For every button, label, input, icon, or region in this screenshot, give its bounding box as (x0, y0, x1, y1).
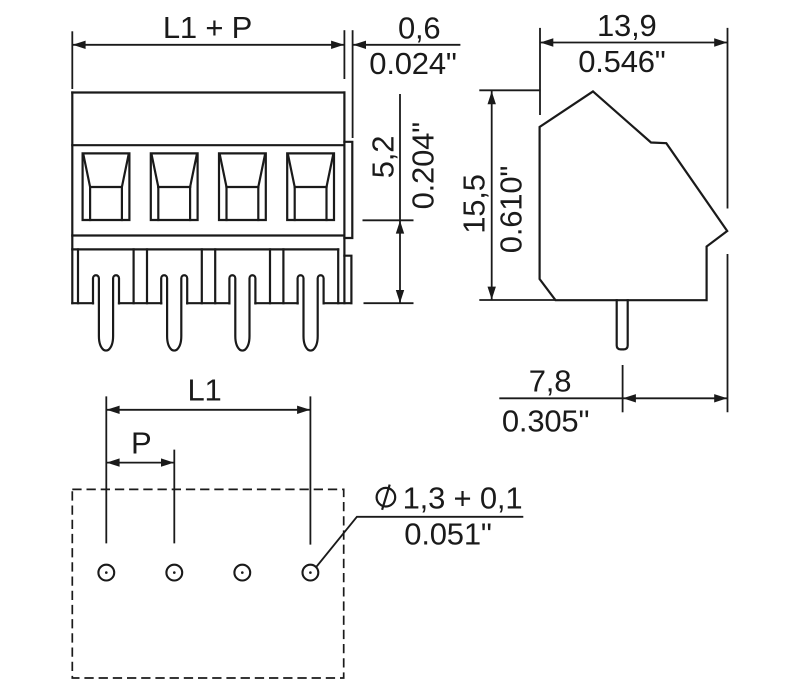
svg-text:0.546": 0.546" (578, 44, 665, 79)
svg-text:5,2: 5,2 (366, 136, 401, 179)
svg-text:0,6: 0,6 (398, 10, 441, 45)
svg-text:0.610": 0.610" (494, 166, 529, 253)
svg-text:1,3 + 0,1: 1,3 + 0,1 (403, 480, 523, 515)
svg-text:0.305": 0.305" (502, 404, 589, 439)
svg-text:0.204": 0.204" (406, 122, 441, 209)
svg-text:15,5: 15,5 (456, 174, 491, 234)
svg-text:L1: L1 (187, 373, 221, 408)
svg-text:7,8: 7,8 (529, 363, 572, 398)
svg-text:13,9: 13,9 (597, 8, 657, 43)
svg-text:0.051": 0.051" (404, 516, 491, 551)
svg-text:0.024": 0.024" (369, 46, 456, 81)
svg-text:L1 + P: L1 + P (163, 10, 252, 45)
svg-text:P: P (131, 425, 151, 460)
